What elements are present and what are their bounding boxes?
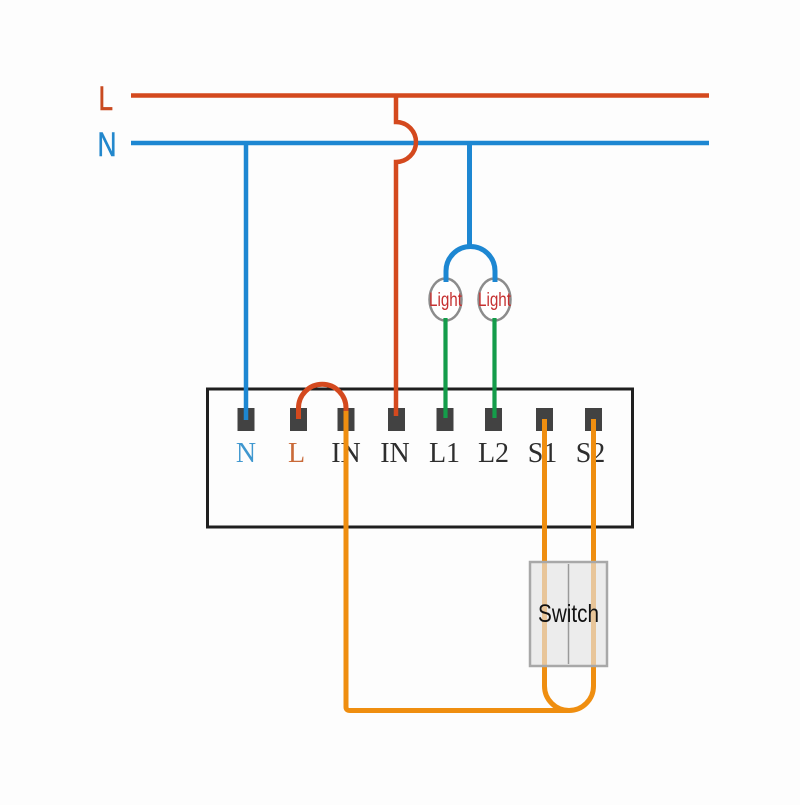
svg-text:N: N [98, 126, 117, 164]
svg-text:L2: L2 [478, 438, 509, 469]
svg-text:L: L [288, 438, 305, 469]
svg-text:S2: S2 [576, 438, 606, 469]
svg-text:N: N [236, 438, 256, 469]
svg-text:L: L [99, 80, 114, 118]
svg-text:Light: Light [429, 290, 463, 311]
svg-text:Light: Light [478, 290, 512, 311]
svg-text:Switch: Switch [538, 600, 599, 628]
svg-text:IN: IN [380, 438, 410, 469]
svg-text:L1: L1 [429, 438, 460, 469]
